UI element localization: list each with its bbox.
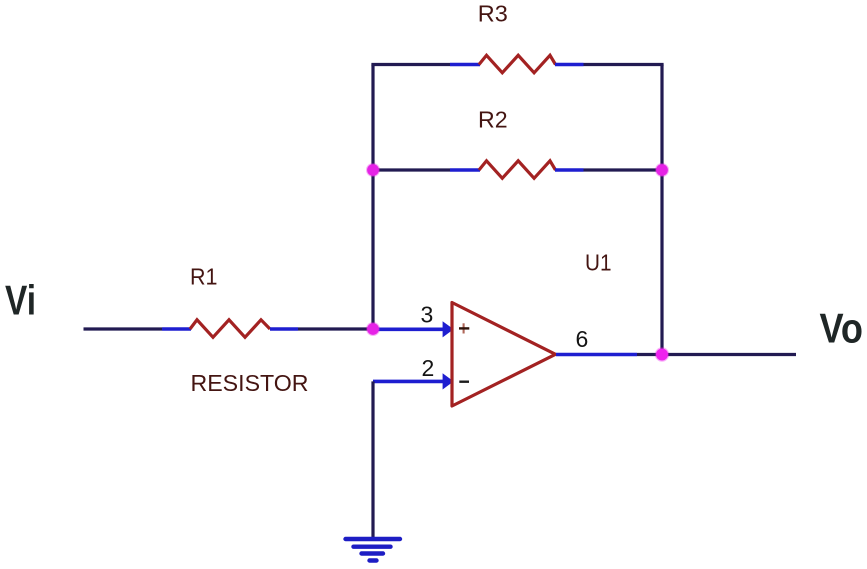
resistor R2 bbox=[479, 161, 556, 179]
svg-text:3: 3 bbox=[421, 301, 434, 327]
svg-text:U1: U1 bbox=[585, 250, 612, 276]
svg-text:Vi: Vi bbox=[5, 277, 36, 324]
wire R2 right segment bbox=[584, 168, 663, 171]
wire output to Vo bbox=[637, 353, 796, 356]
svg-text:R1: R1 bbox=[190, 263, 218, 289]
wire R2 left segment bbox=[373, 168, 450, 171]
op-amp + input marker bbox=[463, 323, 465, 333]
junction node R2-left bbox=[366, 163, 380, 177]
op-amp U1 bbox=[452, 303, 556, 407]
wire op-amp output (blue) bbox=[556, 353, 637, 357]
resistor R1 bbox=[190, 320, 270, 338]
pin arrow into + input bbox=[443, 321, 454, 337]
op-amp - input marker bbox=[459, 381, 469, 383]
wire R2 left lead (blue) bbox=[450, 168, 480, 172]
ground bbox=[346, 539, 401, 561]
wire R1 left lead (blue) bbox=[162, 327, 191, 331]
junction node output bbox=[655, 347, 669, 361]
svg-text:R3: R3 bbox=[478, 1, 508, 27]
wire node A to op-amp + input (blue) bbox=[373, 327, 444, 331]
wire R3 left lead (blue) bbox=[450, 63, 480, 67]
wire ground corner to op-amp - input (blue) bbox=[373, 380, 444, 384]
wire R2 right lead (blue) bbox=[555, 168, 584, 172]
svg-text:Vo: Vo bbox=[820, 304, 864, 351]
svg-text:2: 2 bbox=[422, 355, 435, 381]
pin arrow into - input bbox=[443, 373, 454, 389]
wire R1 right lead (blue) bbox=[270, 327, 298, 331]
wire R1 to node A bbox=[298, 327, 373, 330]
wire R3 top right segment bbox=[584, 63, 664, 66]
wire R3 top left segment bbox=[371, 63, 450, 66]
wire left feedback vertical bbox=[371, 65, 374, 330]
junction node R2-right bbox=[655, 163, 669, 177]
wire R3 right lead (blue) bbox=[555, 63, 584, 67]
resistor R3 bbox=[479, 55, 556, 73]
wire right feedback vertical bbox=[660, 65, 663, 355]
wire input from Vi to R1 bbox=[84, 327, 163, 330]
svg-text:RESISTOR: RESISTOR bbox=[191, 370, 309, 396]
svg-text:6: 6 bbox=[576, 326, 589, 352]
svg-text:R2: R2 bbox=[478, 106, 508, 132]
wire ground vertical bbox=[371, 381, 374, 537]
junction node A (input) bbox=[366, 322, 380, 336]
